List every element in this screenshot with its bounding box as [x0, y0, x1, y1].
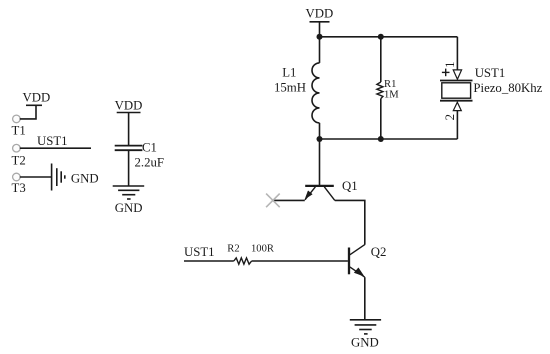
wire [20, 176, 51, 178]
wire [319, 123, 321, 139]
transistor Q2 [349, 245, 386, 278]
junction [317, 34, 323, 40]
wire [273, 199, 305, 201]
terminal T1 [12, 115, 26, 137]
power VDD (T1) [23, 91, 51, 106]
svg-text:VDD: VDD [23, 91, 51, 105]
wire [128, 150, 130, 186]
inductor L1 [282, 63, 319, 123]
wire [128, 113, 130, 146]
wire [456, 37, 458, 70]
piezo UST1 [440, 66, 505, 101]
no-connect X [266, 194, 280, 208]
wire [20, 147, 91, 149]
svg-text:R2: R2 [227, 243, 239, 254]
junction [378, 136, 384, 142]
terminal T2 [12, 144, 26, 167]
wire [252, 260, 348, 262]
ground GND (Q2) [350, 320, 381, 350]
wire [319, 22, 321, 37]
svg-text:1: 1 [443, 61, 457, 67]
svg-text:100R: 100R [251, 243, 275, 254]
transistor Q1 [305, 179, 358, 201]
junction [378, 34, 384, 40]
power VDD (C1 branch) [115, 99, 143, 113]
svg-text:15mH: 15mH [274, 81, 306, 95]
wire [319, 37, 321, 63]
svg-text:VDD: VDD [115, 99, 143, 113]
svg-text:Piezo_80Khz: Piezo_80Khz [473, 81, 542, 95]
svg-text:1M: 1M [384, 90, 399, 101]
junction [317, 136, 323, 142]
pin 1 arrow [453, 70, 461, 79]
ground GND (T3, sideways) [52, 164, 99, 191]
wire [20, 106, 36, 119]
wire [184, 260, 234, 262]
wire (top rail) [320, 36, 458, 38]
svg-text:GND: GND [71, 171, 99, 185]
svg-text:Q1: Q1 [342, 179, 358, 193]
svg-text:VDD: VDD [306, 7, 334, 21]
ground GND (C1) [113, 186, 145, 215]
svg-text:2.2uF: 2.2uF [135, 155, 165, 169]
svg-text:GND: GND [115, 201, 143, 215]
pin 2 arrow [453, 102, 461, 110]
svg-text:UST1: UST1 [37, 134, 68, 148]
wire [364, 277, 366, 319]
svg-text:GND: GND [351, 336, 379, 350]
wire [319, 139, 321, 185]
svg-text:T2: T2 [12, 154, 26, 168]
terminal T3 [12, 173, 26, 195]
wire [456, 111, 458, 139]
resistor R2 [227, 243, 251, 264]
power VDD (main) [306, 7, 334, 22]
svg-text:L1: L1 [282, 66, 296, 80]
svg-text:UST1: UST1 [475, 66, 506, 80]
svg-text:UST1: UST1 [184, 245, 215, 259]
capacitor C1 [115, 140, 157, 154]
svg-text:T3: T3 [12, 181, 26, 195]
wire [335, 200, 365, 244]
svg-text:2: 2 [443, 114, 457, 120]
wire (bottom rail) [320, 138, 458, 140]
svg-text:R1: R1 [384, 79, 396, 90]
resistor R1 [377, 37, 396, 139]
svg-text:T1: T1 [12, 124, 26, 138]
svg-text:Q2: Q2 [371, 245, 387, 259]
pin polarity + [442, 69, 450, 77]
svg-text:C1: C1 [142, 140, 157, 154]
